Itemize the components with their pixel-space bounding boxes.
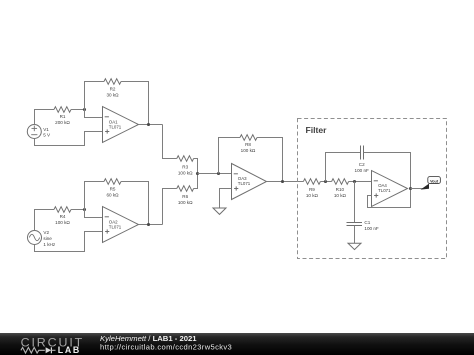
svg-text:100 kΩ: 100 kΩ bbox=[178, 170, 193, 175]
ground (C1) bbox=[348, 243, 361, 249]
voltage source V2 (sine 1 kHz) bbox=[28, 230, 56, 247]
op-amp OA3 (TL071) bbox=[232, 164, 267, 200]
node D (R8 feedback tap) bbox=[217, 172, 220, 175]
wire R8 to OA3 output node bbox=[257, 138, 283, 182]
svg-text:R1: R1 bbox=[60, 114, 66, 119]
wire OA2 non-inverting input to V2 bottom bbox=[35, 232, 103, 252]
node A (OA1 inverting input junction) bbox=[83, 108, 86, 111]
svg-text:LAB: LAB bbox=[58, 345, 81, 355]
voltage source V1 (5 V DC) bbox=[27, 125, 51, 139]
svg-text:TL071: TL071 bbox=[109, 224, 122, 229]
wire OA1 output bbox=[139, 124, 163, 126]
resistor R3 (100 k&#937;) bbox=[177, 156, 194, 176]
wire R9 to node F bbox=[320, 181, 331, 183]
wire OA1 non-inverting input to V1 bottom bbox=[35, 132, 103, 146]
svg-text:R8: R8 bbox=[245, 142, 251, 147]
svg-text:5 V: 5 V bbox=[43, 133, 51, 138]
svg-text:TL071: TL071 bbox=[238, 181, 251, 186]
wire C2 to OA4 output node bbox=[364, 153, 411, 189]
svg-text:R4: R4 bbox=[60, 214, 66, 219]
wire OA3 output to filter bbox=[267, 181, 304, 183]
node OA1 output junction bbox=[147, 123, 150, 126]
svg-text:C1: C1 bbox=[364, 220, 370, 225]
svg-text:100 kΩ: 100 kΩ bbox=[178, 200, 193, 205]
svg-text:100 kΩ: 100 kΩ bbox=[55, 220, 70, 225]
wire R10 to OA4 inverting input bbox=[349, 181, 372, 183]
wire R6 to node C bbox=[194, 174, 198, 189]
wire OA4 feedback (output to non-inverting input) bbox=[368, 189, 411, 208]
resistor R4 (100 k&#937;) bbox=[54, 207, 71, 226]
wire node C to OA3 inverting input bbox=[198, 173, 232, 175]
wire C1 to ground bbox=[354, 226, 356, 244]
svg-text:R2: R2 bbox=[110, 86, 116, 91]
svg-text:10 kΩ: 10 kΩ bbox=[334, 193, 347, 198]
node B (OA2 inverting input junction) bbox=[83, 208, 86, 211]
wire node F up to C2 bbox=[326, 153, 361, 182]
svg-text:V1: V1 bbox=[43, 127, 49, 132]
resistor R6 (100 k&#937;) bbox=[177, 186, 194, 205]
svg-text:C2: C2 bbox=[359, 162, 365, 167]
wire node A up to R2 bbox=[85, 82, 105, 110]
node E (OA3 output junction) bbox=[281, 180, 284, 183]
svg-text:Filter: Filter bbox=[306, 125, 328, 135]
wire R2 to OA1 output node bbox=[121, 82, 149, 125]
resistor R9 (10 k&#937;) bbox=[303, 179, 320, 198]
svg-text:Vout: Vout bbox=[430, 179, 439, 183]
filter enclosure (dashed box) bbox=[298, 119, 447, 259]
svg-text:sine: sine bbox=[43, 236, 52, 241]
resistor R5 (60 k&#937;) feedback of OA2 bbox=[104, 179, 121, 198]
svg-text:R5: R5 bbox=[110, 186, 116, 191]
svg-text:TL071: TL071 bbox=[378, 188, 391, 193]
ground (OA3 non-inverting input) bbox=[213, 208, 226, 214]
CircuitLab logo resistor-diode symbol bbox=[21, 347, 56, 353]
op-amp OA2 (TL071) bbox=[103, 207, 139, 243]
wire node A to OA1 inverting input bbox=[85, 110, 103, 118]
svg-text:R6: R6 bbox=[182, 194, 188, 199]
wire OA1 output down to R3 bbox=[163, 125, 177, 159]
node OA2 output junction bbox=[147, 223, 150, 226]
resistor R1 (200 k&#937;) bbox=[54, 107, 71, 126]
wire R4 to node B bbox=[71, 209, 85, 211]
svg-text:100 nF: 100 nF bbox=[364, 226, 378, 231]
output flag Vout bbox=[421, 177, 441, 190]
resistor R8 (100 k&#937;) feedback of OA3 bbox=[240, 135, 257, 154]
wire OA2 output up to R6 bbox=[163, 189, 177, 225]
op-amp OA1 (TL071) bbox=[103, 107, 139, 143]
wire R5 to OA2 output node bbox=[121, 182, 149, 225]
svg-text:100 nF: 100 nF bbox=[355, 168, 369, 173]
svg-text:1 kHz: 1 kHz bbox=[43, 242, 55, 247]
wire node B to OA2 inverting input bbox=[85, 210, 103, 218]
footer bar bbox=[0, 333, 474, 355]
op-amp OA4 (TL071) bbox=[372, 171, 408, 207]
svg-text:60 kΩ: 60 kΩ bbox=[106, 192, 119, 197]
svg-text:10 kΩ: 10 kΩ bbox=[306, 193, 319, 198]
wire node G down to C1 bbox=[354, 182, 356, 223]
node F (R9/R10/C2 junction) bbox=[324, 180, 327, 183]
node C (summing junction) bbox=[196, 172, 199, 175]
svg-text:http://circuitlab.com/ccdn23rw: http://circuitlab.com/ccdn23rw5ckv3 bbox=[100, 343, 232, 352]
svg-text:30 kΩ: 30 kΩ bbox=[106, 92, 119, 97]
wire OA4 output to Vout flag bbox=[411, 188, 424, 190]
wire OA3 non-inverting input to ground bbox=[220, 189, 232, 209]
wire node D up to R8 bbox=[219, 138, 241, 174]
capacitor C2 (100 nF) bbox=[355, 146, 369, 173]
wire V2 top to R4 bbox=[35, 210, 55, 231]
capacitor C1 (100 nF) bbox=[347, 220, 379, 231]
wire OA2 output bbox=[139, 224, 163, 226]
wire V1 top to R1 bbox=[35, 110, 55, 125]
wire node B up to R5 bbox=[85, 182, 105, 210]
svg-text:R9: R9 bbox=[309, 187, 315, 192]
resistor R10 (10 k&#937;) bbox=[332, 179, 349, 198]
svg-text:R10: R10 bbox=[336, 187, 345, 192]
resistor R2 (30 k&#937;) feedback of OA1 bbox=[104, 79, 121, 98]
svg-text:KyleHemmett / LAB1 - 2021: KyleHemmett / LAB1 - 2021 bbox=[100, 334, 197, 343]
node H (OA4 output junction) bbox=[409, 187, 412, 190]
svg-text:V2: V2 bbox=[43, 230, 49, 235]
wire R1 to node A bbox=[71, 109, 85, 111]
svg-text:200 kΩ: 200 kΩ bbox=[55, 120, 70, 125]
svg-text:R3: R3 bbox=[182, 164, 188, 169]
wire R3 to node C bbox=[194, 159, 198, 174]
svg-text:TL071: TL071 bbox=[109, 124, 122, 129]
node G (R10/C1 junction) bbox=[353, 180, 356, 183]
svg-text:100 kΩ: 100 kΩ bbox=[241, 148, 256, 153]
